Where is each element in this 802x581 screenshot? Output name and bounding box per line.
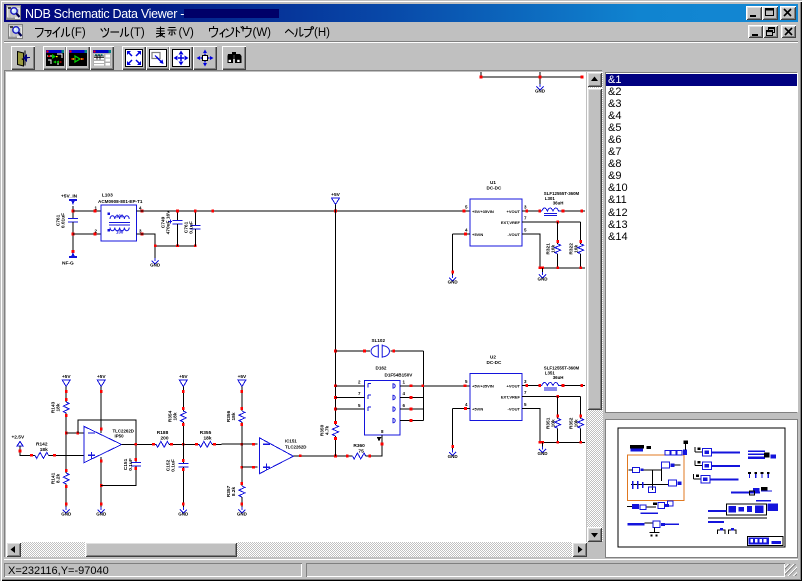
junction dot output1 xyxy=(135,443,155,446)
ground U2 input xyxy=(448,450,459,459)
mini relay1 xyxy=(695,451,702,453)
wire L351 out xyxy=(561,385,585,387)
DC-DC module U1 xyxy=(465,180,527,246)
ground U1 input xyxy=(448,275,459,284)
wire U2 R a2 xyxy=(557,428,559,442)
power symbol NF-G xyxy=(69,252,77,258)
wire C761b bottom lead xyxy=(194,229,196,246)
svg-text:ACM0908-801-EP-T1: ACM0908-801-EP-T1 xyxy=(98,199,143,204)
svg-text:+5V/+35VIN: +5V/+35VIN xyxy=(472,209,494,214)
junction dots top net xyxy=(480,76,584,79)
wire R354 top xyxy=(182,387,184,412)
junction dots U1 pin4 xyxy=(451,233,467,274)
wire U1 gnd stub xyxy=(542,268,544,272)
mini big block xyxy=(727,504,767,515)
wire bus to D162 p2 xyxy=(336,385,365,387)
junction dots U1 bottom xyxy=(539,240,583,269)
wire U2 R a xyxy=(557,397,559,419)
mini line low xyxy=(708,521,724,523)
svg-text:NF-G: NF-G xyxy=(62,261,74,267)
wire R188 to R355 xyxy=(169,443,199,445)
svg-text:2: 2 xyxy=(358,380,361,385)
wire R357 bottom xyxy=(241,497,243,507)
junction dots branch4 xyxy=(241,390,244,505)
junction dots U2 bottom xyxy=(539,415,583,444)
svg-text:4: 4 xyxy=(465,228,468,233)
svg-text:10k: 10k xyxy=(551,245,557,253)
wire U2 pin4 xyxy=(453,408,470,410)
svg-text:10k: 10k xyxy=(574,245,580,253)
mini c6 inside viewport2 xyxy=(631,484,669,486)
svg-text:0.01uF: 0.01uF xyxy=(61,213,67,228)
junction dots wire2 xyxy=(213,443,255,446)
wire D162 p4 stub xyxy=(400,397,424,399)
svg-text:GND: GND xyxy=(96,511,107,516)
common-mode choke L103 xyxy=(94,193,142,242)
junction dots output2 xyxy=(299,455,349,458)
wire U1 pin4 xyxy=(453,233,470,235)
resistor R356 xyxy=(226,410,245,422)
svg-text:IC151: IC151 xyxy=(285,439,297,444)
wire U2 bottom xyxy=(540,441,585,443)
resistor R350 xyxy=(320,424,339,436)
svg-text:+2.5V: +2.5V xyxy=(12,435,25,441)
wire L301 out xyxy=(561,210,585,212)
mini c2 xyxy=(658,502,665,508)
wire R360 to pin8 xyxy=(366,435,382,456)
wire U2 vref xyxy=(522,396,581,398)
wire +5V stem xyxy=(335,205,337,212)
resistor R321 xyxy=(546,243,561,255)
svg-text:6: 6 xyxy=(403,403,406,408)
mini title block xyxy=(747,537,783,546)
op-amp IC151 TLC2262D xyxy=(259,438,306,474)
svg-text:5: 5 xyxy=(465,205,468,210)
svg-text:D1F54B150V: D1F54B150V xyxy=(385,373,414,378)
junction dot terminal xyxy=(19,450,33,457)
wire U1 vref xyxy=(522,221,581,223)
svg-text:36uH: 36uH xyxy=(553,375,564,380)
wire bus to D162 p7 xyxy=(336,397,365,399)
inductor L351 SLF12555T xyxy=(540,366,580,391)
svg-text:18k: 18k xyxy=(40,447,48,453)
wire R354 bottom xyxy=(182,422,184,444)
wire U2 pin4 down xyxy=(452,409,454,450)
wire to choke pin1 xyxy=(73,210,101,212)
diode array D162 xyxy=(358,366,413,442)
svg-text:8: 8 xyxy=(381,429,384,434)
wire C151 to GND rail xyxy=(101,466,136,486)
svg-text:GND: GND xyxy=(237,511,248,516)
wire C749 bottom lead xyxy=(177,224,179,246)
overview page border xyxy=(618,428,785,547)
wire choke pin3 xyxy=(136,234,155,246)
wire top stub A xyxy=(480,71,482,77)
svg-text:8.2k: 8.2k xyxy=(231,487,237,497)
svg-text:DC-DC: DC-DC xyxy=(487,360,502,365)
wire mid bus xyxy=(335,211,337,425)
svg-text:10k: 10k xyxy=(574,419,580,427)
wire SL102 right xyxy=(390,350,423,352)
power symbol +5V b xyxy=(97,374,106,387)
svg-text:75: 75 xyxy=(358,449,364,455)
svg-text:3: 3 xyxy=(524,379,527,384)
wire U1 R a2 xyxy=(557,254,559,268)
wire D162 p1 out xyxy=(400,385,470,387)
wire op-amp V- power xyxy=(100,457,102,507)
junction dots choke pins xyxy=(94,210,144,236)
junction dots left vertical xyxy=(72,210,75,253)
mini bottom brackets xyxy=(718,530,736,534)
mini block title xyxy=(630,445,644,449)
svg-text:R360: R360 xyxy=(353,443,365,449)
wire divider bottom xyxy=(65,484,67,507)
svg-text:EXT,VREF: EXT,VREF xyxy=(501,394,521,399)
terminal +2.5V xyxy=(17,442,23,447)
wire GND stub choke xyxy=(154,246,156,258)
svg-text:3: 3 xyxy=(524,205,527,210)
svg-text:+5V/+35VIN: +5V/+35VIN xyxy=(472,383,494,388)
capacitor C761 input xyxy=(56,213,79,228)
svg-text:-VOUT: -VOUT xyxy=(508,232,521,237)
svg-text:GND: GND xyxy=(61,511,72,516)
svg-text:R188: R188 xyxy=(157,430,169,436)
junction dots +5V rail xyxy=(176,210,465,213)
capacitor C151 xyxy=(123,458,141,471)
wire U1 pin4 down xyxy=(452,234,454,275)
mini relay2 xyxy=(695,465,702,467)
capacitor C761 bypass xyxy=(184,221,201,234)
resistor R141 xyxy=(51,472,70,484)
power symbol +5V_IN xyxy=(69,199,77,205)
junction dots C151 xyxy=(135,458,138,470)
wire R356 top xyxy=(241,387,243,412)
wire R142 to +input xyxy=(49,454,85,456)
svg-text:+5VIN: +5VIN xyxy=(472,406,483,411)
wire D162 p6 stub xyxy=(400,408,424,410)
junction dots U2 vout xyxy=(526,384,584,387)
svg-text:36uH: 36uH xyxy=(553,200,564,205)
svg-text:5: 5 xyxy=(465,379,468,384)
junction dot +in xyxy=(53,454,56,457)
svg-text:7: 7 xyxy=(524,216,527,221)
power symbol +5V d xyxy=(238,374,247,387)
wire R350 bottom xyxy=(335,436,337,456)
junction dot -in xyxy=(77,432,80,435)
surge arrester SL102 xyxy=(371,345,389,358)
wire top horizontal net xyxy=(481,76,582,78)
power symbol +5V c xyxy=(179,374,188,387)
mini c1 xyxy=(632,504,639,509)
capacitor C749 xyxy=(161,210,183,235)
wire terminal stub xyxy=(20,446,35,455)
mini c5 inside viewport xyxy=(633,468,640,473)
junction dot +in2 xyxy=(252,466,255,469)
svg-text:18k: 18k xyxy=(203,436,211,442)
wire U2 R b2 xyxy=(580,428,582,442)
junction dots branch3 xyxy=(182,390,185,505)
svg-text:5: 5 xyxy=(358,403,361,408)
wire U2 R b xyxy=(580,397,582,419)
junction dots D162 right xyxy=(410,385,467,422)
wire U2 -vout xyxy=(522,409,540,443)
svg-text:+5V: +5V xyxy=(97,374,106,380)
ground G2 xyxy=(150,258,161,267)
ground G3 xyxy=(61,507,72,516)
junction dots SL102 xyxy=(363,350,395,353)
svg-text:5: 5 xyxy=(524,402,527,407)
ground G6 xyxy=(237,507,248,516)
svg-text:100: 100 xyxy=(116,214,124,219)
svg-text:GND: GND xyxy=(535,88,546,93)
resistor R360 xyxy=(353,443,366,459)
wire C152 bottom xyxy=(182,467,184,507)
wire D162 pin8 stub xyxy=(381,435,383,441)
svg-text:7: 7 xyxy=(524,390,527,395)
wire op-amp V+ power xyxy=(100,387,102,434)
wire -input xyxy=(66,432,84,434)
DC-DC module U2 xyxy=(465,355,527,421)
wire +input2 xyxy=(242,466,258,468)
power symbol +5V rail xyxy=(331,192,340,205)
wire output stage1 xyxy=(122,443,156,445)
wire top stub B xyxy=(539,71,541,77)
wire C761 to NF-G xyxy=(72,222,74,252)
svg-text:0.1uF: 0.1uF xyxy=(128,458,134,471)
svg-text:18k: 18k xyxy=(173,412,179,420)
wire +5V rail xyxy=(136,210,470,212)
svg-text:SL102: SL102 xyxy=(372,338,386,343)
wire R355 to -input2 xyxy=(212,443,258,445)
svg-text:18k: 18k xyxy=(231,412,237,420)
junction dot U2 vref xyxy=(556,395,559,398)
wire U1 R a xyxy=(557,222,559,244)
junction dots op-amp power xyxy=(100,390,103,505)
resistor R143 xyxy=(51,401,70,413)
mini row boxes xyxy=(665,450,670,455)
wire C152 top xyxy=(182,444,184,463)
svg-text:R355: R355 xyxy=(200,430,212,436)
svg-text:+5V: +5V xyxy=(62,374,71,380)
resistor R351 xyxy=(546,417,561,429)
power symbol +5V a xyxy=(62,374,71,387)
svg-text:+VOUT: +VOUT xyxy=(507,383,521,388)
svg-text:8.2k: 8.2k xyxy=(56,474,62,484)
svg-text:GND: GND xyxy=(448,454,459,459)
resistor R188 xyxy=(156,430,169,447)
svg-text:R142: R142 xyxy=(36,441,48,447)
svg-text:TLC2262D: TLC2262D xyxy=(285,445,306,450)
resistor R354 xyxy=(168,410,187,422)
svg-text:GND: GND xyxy=(178,511,189,516)
ground U1 output xyxy=(538,272,549,281)
svg-text:1: 1 xyxy=(94,206,97,211)
svg-text:18k: 18k xyxy=(56,403,62,411)
wire divider top xyxy=(65,387,67,403)
wire feedback loop xyxy=(78,420,136,444)
resistor R322 xyxy=(569,243,584,255)
svg-text:7: 7 xyxy=(358,391,361,396)
junction dots U2 pin4 xyxy=(451,407,467,448)
svg-text:+5V: +5V xyxy=(179,374,188,380)
svg-text:+5VIN: +5VIN xyxy=(472,232,483,237)
svg-text:5: 5 xyxy=(524,228,527,233)
svg-text:4.7k: 4.7k xyxy=(325,426,331,436)
wire bus to SL102 xyxy=(336,350,371,352)
resistor R355 xyxy=(199,430,212,447)
resistor R352 xyxy=(569,417,584,429)
wire output2 xyxy=(293,455,352,457)
svg-text:2: 2 xyxy=(94,229,97,234)
junction dots U1 vout xyxy=(526,210,584,213)
ground G5 xyxy=(178,507,189,516)
op-amp U150 TLC2262D xyxy=(84,427,134,463)
svg-text:GND: GND xyxy=(150,262,161,267)
wire bus to D162 p5 xyxy=(336,408,365,410)
svg-text:200: 200 xyxy=(160,436,168,442)
capacitor C152 xyxy=(166,459,189,472)
svg-text:U1: U1 xyxy=(490,180,496,185)
svg-text:+5V: +5V xyxy=(238,374,247,380)
mini c4 xyxy=(653,528,655,533)
wire to choke pin2 xyxy=(73,233,101,235)
svg-text:100: 100 xyxy=(116,230,124,235)
wire U2 gnd stub xyxy=(542,442,544,446)
svg-text:+5V: +5V xyxy=(331,192,340,198)
mini relay3 xyxy=(694,478,701,480)
svg-text:4: 4 xyxy=(403,391,406,396)
wire +5V_IN vertical xyxy=(72,206,74,218)
junction dots divider xyxy=(65,390,68,505)
svg-text:D162: D162 xyxy=(376,366,387,371)
svg-text:DC-DC: DC-DC xyxy=(487,186,502,191)
wire U1 +VOUT xyxy=(522,210,540,212)
resistor R357 xyxy=(226,485,245,497)
svg-text:10k: 10k xyxy=(551,419,557,427)
mini rlines xyxy=(748,450,765,452)
svg-text:GND: GND xyxy=(538,451,549,456)
mini pins4 xyxy=(748,472,751,474)
wire divider mid xyxy=(65,413,67,473)
wire U1 -vout xyxy=(522,234,540,268)
svg-text:0.1uF: 0.1uF xyxy=(171,459,177,472)
svg-text:U2: U2 xyxy=(490,355,496,360)
junction dots mid wire xyxy=(170,443,198,446)
svg-text:+5V_IN: +5V_IN xyxy=(61,194,78,200)
overview viewport rectangle xyxy=(628,455,685,501)
svg-text:1: 1 xyxy=(403,380,406,385)
svg-text:GND: GND xyxy=(448,279,459,284)
wire D162 p3 stub xyxy=(400,420,424,422)
wire U1 R b2 xyxy=(580,254,582,268)
svg-text:4: 4 xyxy=(465,402,468,407)
wire U1 bottom xyxy=(540,267,585,269)
svg-text:470uF 16V: 470uF 16V xyxy=(166,210,172,235)
junction dots bottom bus xyxy=(154,245,197,248)
wire C749 top lead xyxy=(177,211,179,220)
svg-text:GND: GND xyxy=(538,276,549,281)
wire SL102 down xyxy=(422,351,424,421)
wire cap bottom bus xyxy=(155,245,195,247)
svg-text:-VOUT: -VOUT xyxy=(508,406,521,411)
inductor L301 SLF12555T xyxy=(540,191,580,216)
svg-text:+VOUT: +VOUT xyxy=(507,209,521,214)
wire GND stub xyxy=(539,77,541,84)
mini hline mid xyxy=(731,492,760,494)
svg-text:0.1uF: 0.1uF xyxy=(189,221,195,234)
wire C761b top lead xyxy=(194,211,196,225)
svg-text:EXT,VREF: EXT,VREF xyxy=(501,220,521,225)
wire output to C151 xyxy=(135,444,137,462)
junction dots mid bus xyxy=(334,350,337,440)
resistor R142 xyxy=(35,441,49,458)
ground G4 xyxy=(96,507,107,516)
wire R356 bottom xyxy=(241,422,243,486)
ground U2 output xyxy=(538,447,549,456)
wire U2 +VOUT xyxy=(522,385,540,387)
wire U1 R b xyxy=(580,222,582,244)
svg-text:L103: L103 xyxy=(102,193,113,199)
junction dots pin8 xyxy=(369,443,384,458)
ground G1 xyxy=(535,84,546,93)
junction dot U1 vref xyxy=(556,221,559,224)
svg-text:IP50: IP50 xyxy=(115,434,125,439)
mini c3 xyxy=(628,523,645,526)
